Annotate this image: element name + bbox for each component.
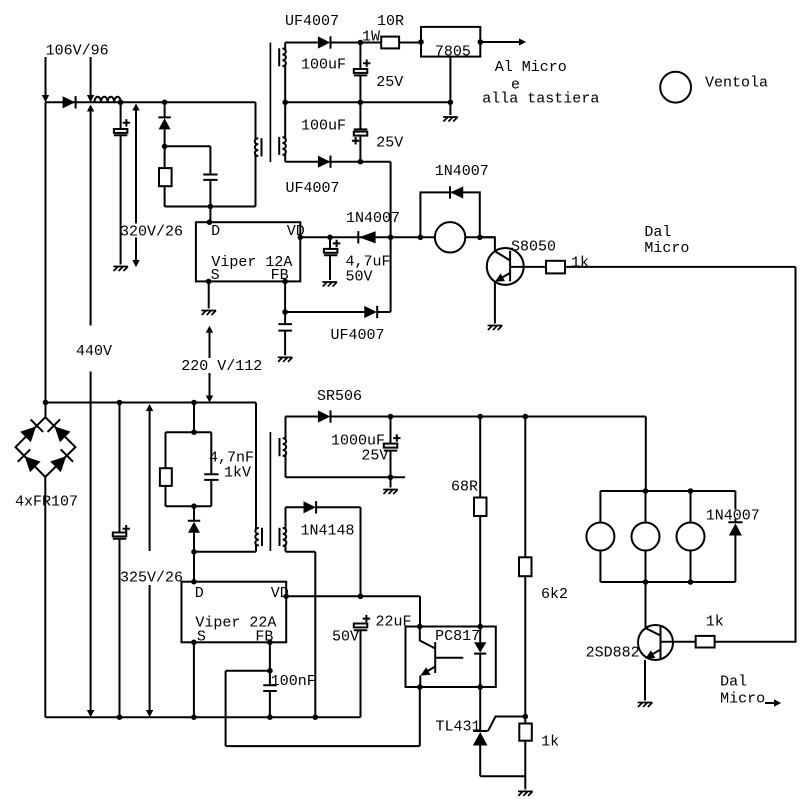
snubber2 loop xyxy=(166,432,212,506)
wire 1000uF gnd xyxy=(390,477,392,487)
capacitor snubber upper xyxy=(203,175,217,207)
svg-text:100nF: 100nF xyxy=(271,673,316,690)
phototransistor PC817 xyxy=(420,627,464,688)
node 100nF bus xyxy=(267,714,273,720)
fan motor M3 xyxy=(632,491,660,582)
wire base S8050 xyxy=(510,266,546,268)
capacitor 100uF upper xyxy=(354,43,371,103)
ground 4.7uF xyxy=(322,282,337,287)
fan motor M2 xyxy=(586,491,614,582)
node snubber top xyxy=(162,100,168,106)
wire FB22 down xyxy=(269,642,271,670)
transformer T1 secondary upper xyxy=(282,43,286,103)
ground TL431 xyxy=(518,791,533,796)
left rail xyxy=(45,102,47,417)
IC Viper 12A xyxy=(196,222,305,284)
capacitor FB xyxy=(278,312,292,355)
transformer T2 core xyxy=(269,432,271,551)
bus 0V bottom xyxy=(45,716,360,718)
wire snubber feed xyxy=(193,403,195,433)
diode 1N4007 fan12 loop xyxy=(420,186,479,237)
diode 1N4148 xyxy=(304,501,361,596)
svg-text:D: D xyxy=(195,585,204,602)
measure line right 106V xyxy=(87,57,94,102)
transformer T1 primary bar xyxy=(261,138,263,156)
wire secondary bottom xyxy=(285,162,390,312)
svg-text:VD: VD xyxy=(271,585,289,602)
svg-text:1k: 1k xyxy=(571,255,589,272)
bus 320V xyxy=(46,402,257,404)
node 6k2 bus xyxy=(523,414,529,420)
node fans bottom right xyxy=(688,579,694,585)
transformer T2 primary bar xyxy=(261,528,263,546)
node fans bottom mid xyxy=(643,579,649,585)
svg-text:Dal: Dal xyxy=(720,674,747,691)
svg-text:2SD882: 2SD882 xyxy=(586,645,640,662)
pin FB22 node xyxy=(267,640,273,646)
transformer T2 primary xyxy=(255,403,259,552)
resistor 1k TL431 xyxy=(519,724,532,741)
measure line 440V xyxy=(87,105,94,718)
node bottom cap xyxy=(358,159,364,165)
svg-text:UF4007: UF4007 xyxy=(285,13,339,30)
diode snubber upper xyxy=(158,102,170,146)
svg-text:25V: 25V xyxy=(361,448,388,465)
fan rail bottom xyxy=(600,581,735,583)
pin VD node xyxy=(298,235,304,241)
transformer T1 secondary lower xyxy=(282,102,286,161)
svg-text:106V/96: 106V/96 xyxy=(46,43,109,60)
ground 2SD882 xyxy=(638,703,653,708)
diode SR506 xyxy=(318,410,646,422)
svg-text:220 V/112: 220 V/112 xyxy=(181,358,262,375)
wire aux return xyxy=(286,552,316,717)
node FB22 branch xyxy=(267,668,273,674)
node fans top mid xyxy=(643,488,649,494)
diode UF4007 FB xyxy=(364,306,390,318)
svg-text:S: S xyxy=(197,629,206,646)
svg-text:325V/26: 325V/26 xyxy=(120,570,183,587)
node bus cap xyxy=(117,400,123,406)
node after inductor xyxy=(118,100,124,106)
svg-text:100uF: 100uF xyxy=(301,57,346,74)
svg-text:SR506: SR506 xyxy=(317,388,362,405)
wire primary2 bottom xyxy=(194,551,256,553)
svg-text:PC817: PC817 xyxy=(435,628,480,645)
diode snubber lower xyxy=(188,506,200,552)
svg-text:1k: 1k xyxy=(541,734,559,751)
svg-text:25V: 25V xyxy=(376,74,403,91)
capacitor 1000uF xyxy=(384,417,401,478)
measure line 325V xyxy=(146,404,153,717)
IC Viper 22A xyxy=(182,582,289,646)
node TL431 ref xyxy=(523,714,529,720)
node bus left xyxy=(43,400,49,406)
svg-text:1k: 1k xyxy=(706,614,724,631)
node bottom cap xyxy=(117,714,123,720)
ground 7805 xyxy=(443,117,458,122)
wire mid xyxy=(285,101,450,103)
node VD rail xyxy=(388,235,394,241)
ground S8050 xyxy=(488,326,503,331)
node PC817 K xyxy=(477,684,483,690)
node S22 bus xyxy=(191,714,197,720)
svg-text:68R: 68R xyxy=(451,479,478,496)
pin D node xyxy=(207,219,213,225)
diode 1N4007 fans xyxy=(728,491,742,582)
svg-text:25V: 25V xyxy=(376,134,403,151)
transformer T1 primary xyxy=(255,102,259,206)
transformer T1 secondary bar lower xyxy=(278,137,280,155)
wire FB xyxy=(285,281,364,312)
pin S node xyxy=(206,279,212,285)
transistor Q1 S8050 xyxy=(480,237,524,323)
diode UF4007 bottom xyxy=(318,156,331,168)
resistor 6k2 xyxy=(519,557,532,576)
capacitor 325V electrolytic xyxy=(113,403,130,718)
wire LED to TL431 xyxy=(479,687,481,731)
svg-text:1N4148: 1N4148 xyxy=(301,523,355,540)
fan rail top xyxy=(600,490,735,492)
resistor 10R xyxy=(381,37,421,49)
transformer T2 secondary bar lower xyxy=(279,528,281,546)
capacitor 4.7uF xyxy=(324,237,340,280)
wire SR506 out xyxy=(286,416,318,418)
optocoupler PC817 xyxy=(406,627,496,688)
svg-text:alla tastiera: alla tastiera xyxy=(482,91,599,108)
bridge rectifier 4xFR107 xyxy=(16,417,76,477)
diode 1N4007 viper12 xyxy=(358,231,375,243)
wire VD22 xyxy=(286,596,420,626)
node snubber mid xyxy=(162,144,168,150)
capacitor snubber lower 4,7nF xyxy=(204,474,218,480)
ground input cap xyxy=(113,267,128,272)
node mid cap xyxy=(358,100,364,106)
svg-text:10R: 10R xyxy=(377,13,404,30)
node top out xyxy=(358,40,364,46)
svg-text:1W: 1W xyxy=(362,29,380,46)
measure line 320V xyxy=(132,104,139,268)
node snubber bottom xyxy=(208,204,214,210)
wire to D pin xyxy=(209,207,211,223)
node VD22 junction xyxy=(358,594,364,600)
node fans top right xyxy=(688,488,694,494)
wire 1000uF loop bottom xyxy=(286,476,406,478)
wire fan12 right xyxy=(465,236,495,238)
ground 1000uF xyxy=(383,490,398,495)
svg-text:1N4007: 1N4007 xyxy=(346,210,400,227)
wire 6k2 rail gnd xyxy=(524,741,526,790)
pin S22 node xyxy=(191,640,197,646)
pin VD22 node xyxy=(283,594,289,600)
resistor 1k 2SD882 xyxy=(696,636,715,648)
svg-text:Dal: Dal xyxy=(644,224,671,241)
svg-text:Micro: Micro xyxy=(644,240,689,257)
svg-text:S: S xyxy=(211,267,220,284)
diode input xyxy=(63,96,76,108)
measure line left 106V xyxy=(42,57,49,102)
LED PC817 xyxy=(474,627,486,688)
node 1000uF bottom xyxy=(388,474,394,480)
node center tap xyxy=(282,100,288,106)
fan legend circle xyxy=(660,72,691,103)
node VD cap xyxy=(327,235,333,241)
pin D22 node xyxy=(191,579,197,585)
svg-text:1N4007: 1N4007 xyxy=(435,163,489,180)
node fan left xyxy=(418,235,424,241)
wire bridge to bus bottom xyxy=(44,477,46,717)
svg-text:Ventola: Ventola xyxy=(705,75,768,92)
node PC817 E xyxy=(417,684,423,690)
node 7805 out xyxy=(478,39,484,45)
transformer T1 secondary bar upper xyxy=(278,48,280,66)
capacitor input electrolytic xyxy=(114,102,130,264)
node 7805 gnd xyxy=(448,100,454,106)
wire snubber top xyxy=(165,146,211,173)
wire fan12 left xyxy=(391,236,435,238)
wire output arrow xyxy=(480,38,526,45)
svg-text:50V: 50V xyxy=(346,269,373,286)
wire right rail xyxy=(715,267,796,642)
transistor Q2 2SD882 xyxy=(638,582,673,701)
node 7805 in xyxy=(418,39,424,45)
svg-text:UF4007: UF4007 xyxy=(286,180,340,197)
fan motor M1 xyxy=(435,222,465,252)
regulator 7805 xyxy=(421,27,480,61)
capacitor 100uF lower xyxy=(352,102,367,161)
ground FB cap xyxy=(278,357,293,362)
ground S viper12 xyxy=(201,311,216,316)
TL431 shunt xyxy=(473,717,525,777)
svg-text:Al Micro: Al Micro xyxy=(495,59,567,76)
node snubber2 top xyxy=(191,429,197,435)
svg-text:50V: 50V xyxy=(332,629,359,646)
node bus snubber xyxy=(191,400,197,406)
svg-text:1kV: 1kV xyxy=(224,465,251,482)
wire FB22 network xyxy=(226,671,420,746)
svg-text:320V/26: 320V/26 xyxy=(120,224,183,241)
diode UF4007 top xyxy=(318,36,381,48)
svg-text:7805: 7805 xyxy=(435,44,471,61)
transformer T2 secondary upper xyxy=(283,417,287,478)
node 1000uF top xyxy=(388,414,394,420)
capacitor 100nF xyxy=(263,671,277,718)
wire to D pin viper22 xyxy=(193,552,195,582)
capacitor 22uF xyxy=(354,615,370,717)
transformer T2 aux winding xyxy=(283,507,287,552)
resistor snubber upper xyxy=(159,146,172,206)
svg-text:440V: 440V xyxy=(76,343,112,360)
resistor 68R xyxy=(474,498,487,517)
svg-text:Micro: Micro xyxy=(720,691,765,708)
wire S gnd xyxy=(208,281,210,308)
wire 68R rail xyxy=(479,417,481,627)
wire S22 to bus xyxy=(193,642,195,717)
transformer T2 secondary bar upper xyxy=(279,438,281,456)
svg-text:4xFR107: 4xFR107 xyxy=(15,494,78,511)
fan motor M4 xyxy=(677,491,705,582)
resistor 1k S8050 xyxy=(546,261,796,274)
node PC817 A xyxy=(477,624,483,630)
pin FB node xyxy=(282,279,288,285)
wire 6k2 rail xyxy=(524,417,526,724)
wire snubber bottom xyxy=(165,206,256,208)
node fan right xyxy=(477,235,483,241)
wire aux top xyxy=(286,506,304,508)
wire 7805 gnd xyxy=(449,57,451,115)
resistor snubber lower xyxy=(160,468,172,486)
svg-text:D: D xyxy=(211,223,220,240)
svg-text:100uF: 100uF xyxy=(301,118,346,135)
svg-text:TL431: TL431 xyxy=(436,719,481,736)
wire input top xyxy=(46,101,256,103)
node FB branch xyxy=(282,309,288,315)
node 68R bus xyxy=(477,414,483,420)
measure line 220V xyxy=(206,326,213,403)
wire fans feed xyxy=(645,417,647,492)
transformer T1 core xyxy=(269,43,271,162)
svg-text:6k2: 6k2 xyxy=(541,586,568,603)
svg-text:UF4007: UF4007 xyxy=(331,327,385,344)
node aux bus xyxy=(313,714,319,720)
wire base 2SD882 xyxy=(661,641,696,643)
node D22 junction xyxy=(191,549,197,555)
inductor L1 xyxy=(94,97,120,103)
arrow Dal Micro xyxy=(765,699,781,706)
wire secondary top xyxy=(285,42,318,44)
node PC817 C xyxy=(417,624,423,630)
wire VD xyxy=(300,236,390,238)
node snubber2 bottom xyxy=(191,503,197,509)
